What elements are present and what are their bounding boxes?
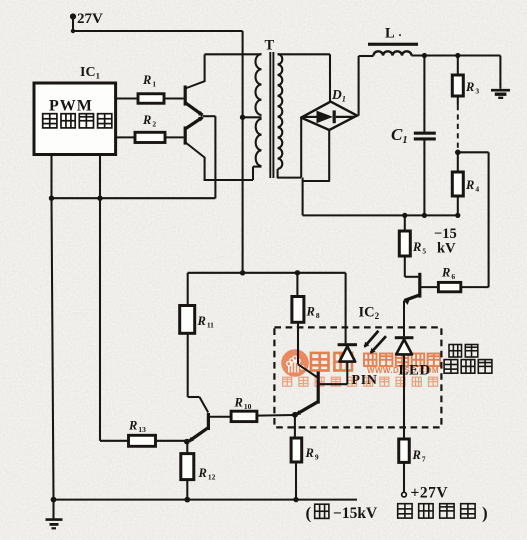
label photo-coupler <box>444 345 492 374</box>
node <box>97 196 102 201</box>
wire <box>423 56 425 132</box>
node +27V terminal <box>402 485 449 502</box>
svg-text:PWM: PWM <box>49 98 93 115</box>
node <box>184 497 190 503</box>
resistor R13 <box>128 419 156 447</box>
node <box>184 439 190 445</box>
wire <box>298 322 317 377</box>
resistor R9 <box>291 438 319 462</box>
wire <box>457 152 459 172</box>
node <box>455 150 461 156</box>
svg-text:T: T <box>265 38 275 54</box>
wire mid rail <box>188 272 346 274</box>
wire dashed <box>457 105 459 150</box>
wire <box>423 141 425 216</box>
node <box>455 213 460 218</box>
transformer core <box>270 52 273 178</box>
svg-text:+27V: +27V <box>411 485 449 502</box>
wire <box>242 31 244 273</box>
ground bottom-left <box>46 500 63 529</box>
resistor R8 <box>292 297 320 323</box>
wire <box>458 151 489 153</box>
wire ground rail <box>54 499 358 501</box>
node <box>402 213 407 218</box>
wire <box>204 54 206 82</box>
node <box>49 196 54 201</box>
svg-text:−15kV: −15kV <box>333 505 378 522</box>
wire <box>257 414 295 417</box>
wire PWM pin left <box>52 155 54 500</box>
wire <box>203 115 215 117</box>
transformer primary winding <box>255 54 261 166</box>
label -15kV <box>434 226 457 257</box>
transformer T label <box>265 38 275 54</box>
transistor Q5 <box>296 372 319 415</box>
svg-text:27V: 27V <box>77 11 103 27</box>
wire <box>204 179 253 181</box>
wire <box>214 116 216 198</box>
wire <box>204 157 206 180</box>
node <box>292 412 298 418</box>
inductor L <box>368 43 418 56</box>
wire <box>403 354 405 439</box>
wire <box>404 215 406 231</box>
wire <box>71 17 75 34</box>
svg-text:.: . <box>399 25 402 39</box>
resistor R7 <box>399 439 426 464</box>
wire <box>461 286 489 288</box>
wire <box>164 97 184 99</box>
ground top-right <box>491 90 510 98</box>
wire <box>405 256 419 277</box>
op-amp U1 label IC1 <box>80 65 100 81</box>
svg-text:(: ( <box>306 504 312 523</box>
wire primary bottom <box>253 166 262 168</box>
wire bridge output <box>301 118 329 216</box>
label reference note <box>306 504 488 523</box>
resistor R1 <box>138 73 164 103</box>
wire <box>499 56 501 89</box>
light arrows <box>364 331 386 354</box>
wire <box>488 152 490 287</box>
label PIN <box>352 372 378 387</box>
wire <box>457 196 459 215</box>
wire <box>346 362 348 385</box>
label LED <box>399 363 431 379</box>
IC2 label <box>359 305 380 322</box>
wire <box>186 480 188 500</box>
wire PWM pin right <box>99 155 101 441</box>
wire <box>295 462 297 500</box>
node <box>295 270 300 275</box>
photodiode PIN <box>338 343 357 361</box>
wire <box>294 415 296 438</box>
node 27V terminal <box>70 11 103 27</box>
wire secondary top <box>278 54 330 102</box>
wire <box>296 273 298 297</box>
resistor R2 <box>135 113 165 143</box>
transistor Q2 <box>185 117 204 158</box>
decorative watermark <box>281 349 440 386</box>
wire <box>403 462 405 492</box>
wire <box>156 440 187 442</box>
wire <box>420 286 439 288</box>
resistor R4 <box>452 172 479 196</box>
wire <box>100 440 129 442</box>
wire <box>243 116 262 118</box>
transistor Q6 <box>188 413 231 442</box>
node <box>422 53 427 58</box>
resistor R6 <box>438 266 460 292</box>
wire <box>187 273 189 306</box>
wire <box>320 383 348 385</box>
node <box>51 497 57 503</box>
wire 27V rail <box>73 30 243 32</box>
transistor Q1 <box>185 81 204 116</box>
svg-text:PIN: PIN <box>352 372 378 387</box>
node <box>422 213 427 218</box>
svg-text:): ) <box>482 504 488 523</box>
node center-tap junction <box>240 115 245 120</box>
wire <box>357 56 374 116</box>
wire <box>186 442 188 454</box>
wire <box>116 97 138 99</box>
resistor R12 <box>181 454 216 482</box>
diode D1 label <box>331 87 346 103</box>
PWM IC U1 box <box>34 83 116 155</box>
resistor R5 <box>399 231 426 256</box>
svg-text:kV: kV <box>437 241 456 257</box>
wire feedback to PWM <box>52 197 216 199</box>
wire <box>457 96 459 105</box>
wire <box>457 56 459 76</box>
wire <box>345 273 347 344</box>
node <box>240 270 245 275</box>
wire secondary bottom <box>278 169 301 178</box>
resistor R3 <box>452 75 479 96</box>
diode D1 bridge diamond <box>301 102 357 130</box>
transformer secondary winding <box>278 54 283 169</box>
capacitor C1 <box>391 125 436 146</box>
node <box>455 53 460 58</box>
svg-text:L: L <box>385 26 395 42</box>
resistor R10 <box>231 396 257 422</box>
resistor R11 <box>180 306 214 334</box>
wire <box>116 136 135 138</box>
inductor L label <box>385 25 402 42</box>
node <box>293 497 298 502</box>
transistor Q3 <box>404 273 420 337</box>
wire primary top <box>205 53 262 55</box>
wire <box>165 136 184 138</box>
optocoupler IC2 dashed box <box>274 327 441 427</box>
wire -15kV rail <box>303 214 458 216</box>
wire <box>188 333 209 412</box>
wire output rail <box>412 54 501 56</box>
wire <box>252 167 254 180</box>
led LED <box>395 336 414 354</box>
